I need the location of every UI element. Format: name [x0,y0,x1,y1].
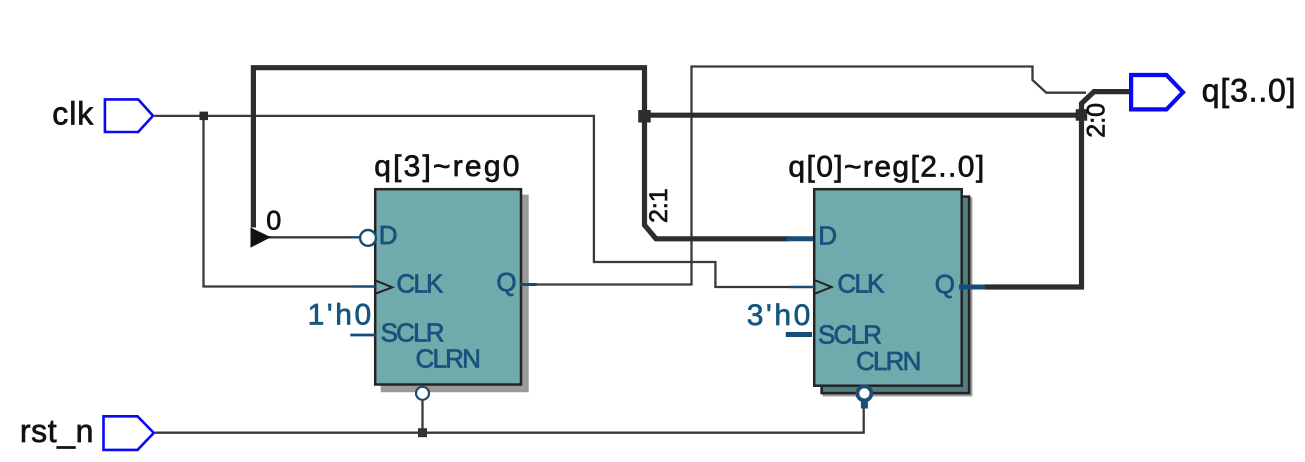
junction on rst_n net [418,428,427,437]
svg-text:CLK: CLK [837,269,885,299]
register q[3]~reg0 body [375,189,521,384]
left register clock chevron [376,281,393,294]
left register pin stub CLK [353,285,376,288]
bus junction left [638,110,651,123]
svg-text:rst_n: rst_n [20,413,94,449]
left register pin stub D (navy) [350,236,360,238]
right register CLRN bubble stem [861,400,868,409]
svg-text:3'h0: 3'h0 [747,299,813,332]
bus q[2..0] feedback loop: top loop, down with bevel into right register D [253,68,789,239]
svg-text:Q: Q [496,267,515,297]
bus tap triangle bit 0 [251,227,271,247]
register q[0]~reg[2..0] back box [822,197,970,394]
register q[3]~reg0 shadow [381,195,529,393]
right register pin stub D (bus) [786,236,813,241]
left register D inversion bubble [360,230,376,246]
left register pin stub SCLR [350,334,375,337]
svg-text:D: D [379,220,397,250]
svg-text:0: 0 [266,206,281,236]
input port clk [105,99,153,132]
right register pin stub SCLR (bus) [786,332,812,337]
svg-text:D: D [818,221,836,251]
right register pin stub Q (bus) [959,285,985,290]
svg-text:Q: Q [935,269,954,299]
output port q[3..0] [1131,75,1183,109]
svg-text:2:0: 2:0 [1083,103,1111,138]
svg-text:CLK: CLK [396,269,444,299]
svg-text:SCLR: SCLR [818,320,881,350]
wire q[3] feedback: left register Q up and to output join [536,67,1086,285]
svg-text:q[3]~reg0: q[3]~reg0 [374,150,521,183]
bus q output: Q pin right, up, to output port [985,92,1130,287]
wire clk: port to junction [155,115,204,117]
register q[0]~reg[2..0] body [814,189,962,386]
junction on clk net [200,112,209,121]
svg-text:q[3..0]: q[3..0] [1202,73,1297,109]
left register CLRN bubble [416,387,429,400]
right register pin stub CLK [790,286,814,289]
right register clock chevron [815,280,832,294]
wire clk: junction right, down, jog to right register CLK [204,116,791,287]
svg-text:CLRN: CLRN [856,346,920,376]
wire clk: junction down to left register CLK [204,116,354,287]
input port rst_n [104,416,154,450]
bus segment junction to Q riser [645,113,1082,118]
svg-text:1'h0: 1'h0 [308,299,374,332]
wire rst_n: port to right register CLRN [155,408,864,433]
wire constant tap to D bubble [268,236,352,238]
wire rst_n branch up to left register CLRN [421,401,423,433]
right register CLRN bubble (bus) [857,386,871,400]
register q[0]~reg[2..0] shadow [822,197,972,396]
svg-text:q[0]~reg[2..0]: q[0]~reg[2..0] [788,151,985,184]
left register pin stub Q [521,283,537,286]
bus junction right [1076,109,1088,121]
svg-text:2:1: 2:1 [645,188,673,223]
svg-text:CLRN: CLRN [416,344,480,374]
svg-text:clk: clk [52,96,94,132]
